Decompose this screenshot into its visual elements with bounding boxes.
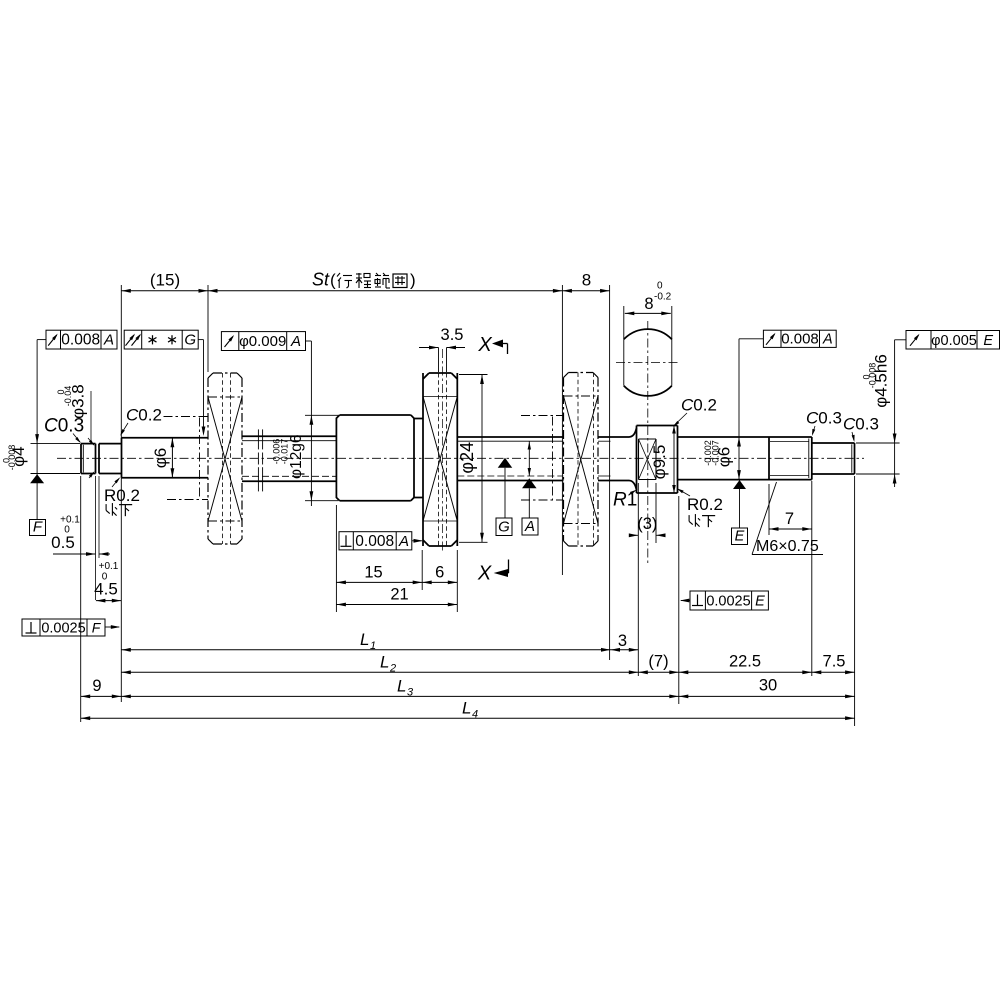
svg-text:0: 0 — [102, 572, 108, 583]
svg-text:φ24: φ24 — [457, 442, 477, 474]
svg-text:R0.2: R0.2 — [687, 495, 723, 514]
thread break marks — [257, 429, 259, 449]
dim (15) — [121, 290, 208, 292]
leader down to phi12g6 dim line — [306, 340, 312, 342]
svg-text:A: A — [103, 332, 114, 349]
svg-text:3: 3 — [407, 687, 414, 699]
svg-text:21: 21 — [390, 586, 408, 604]
circle flats + extension lines — [623, 306, 625, 386]
svg-text:A: A — [822, 331, 833, 347]
svg-text:M6×0.75: M6×0.75 — [756, 538, 819, 555]
dim 0.5 groove width — [95, 476, 97, 600]
svg-text:1: 1 — [370, 640, 376, 652]
svg-text:0.008: 0.008 — [355, 533, 394, 550]
dim L1 and 3 — [121, 649, 610, 651]
phantom flange box3 at right stroke end — [569, 372, 594, 374]
phantom flange box1 at left stroke end — [213, 372, 237, 374]
svg-text:R0.2: R0.2 — [104, 486, 140, 505]
phi6 right dimension — [738, 339, 740, 480]
wrench flats square with X — [638, 439, 640, 480]
datum E target and box — [733, 480, 746, 489]
phi6 left journal — [122, 437, 209, 439]
svg-text:F: F — [33, 519, 43, 536]
dim 3.5 flange hole — [438, 348, 440, 373]
dim 8 0/-0.2 across flats (section view) — [625, 312, 671, 314]
shaft centerline — [57, 457, 864, 459]
svg-text:R1: R1 — [613, 490, 637, 511]
dim (3) wrench flats length — [637, 483, 639, 676]
shoulder at x121 — [121, 438, 123, 478]
dim 15 and 6 nut body/flange — [335, 505, 337, 612]
svg-text:φ0.005: φ0.005 — [931, 333, 977, 349]
datum A target and box — [528, 442, 530, 477]
dim 4.5 — [96, 600, 121, 602]
phi4.5h6 dimension — [894, 340, 896, 487]
svg-text:φ0.009: φ0.009 — [239, 333, 286, 350]
section X-X view circle with flats — [624, 329, 672, 339]
circlip groove phi3.8 — [95, 444, 97, 474]
dim 8 (top, overtravel) — [562, 290, 609, 292]
bottom dim extension lines — [80, 476, 82, 722]
svg-text:0.0025: 0.0025 — [41, 621, 85, 637]
svg-text:+0.1: +0.1 — [60, 515, 80, 526]
datum G target and box — [498, 458, 513, 468]
svg-text:-0.008: -0.008 — [7, 445, 17, 471]
svg-text:2: 2 — [389, 663, 396, 675]
flange X marks — [423, 397, 457, 522]
svg-text:(15): (15) — [150, 271, 180, 290]
svg-text:6: 6 — [435, 563, 444, 581]
phi4.5 tip — [812, 442, 855, 444]
svg-text:0.008: 0.008 — [61, 332, 100, 349]
svg-text:7.5: 7.5 — [823, 653, 846, 671]
svg-text:G: G — [498, 519, 510, 536]
svg-text:8: 8 — [582, 271, 591, 290]
svg-text:30: 30 — [759, 677, 777, 695]
svg-text:C0.3: C0.3 — [806, 409, 842, 428]
svg-text:15: 15 — [364, 563, 382, 581]
dim 9 L3 30 — [81, 695, 122, 697]
svg-text:φ9.5: φ9.5 — [650, 445, 669, 480]
svg-text:C0.3: C0.3 — [44, 416, 84, 437]
svg-text:-0.008: -0.008 — [868, 363, 878, 389]
svg-text:L: L — [397, 677, 406, 696]
phi12g6 dimension — [310, 341, 312, 506]
screw thread section right — [457, 436, 563, 438]
FCF total runout * * G — [124, 330, 198, 349]
svg-text:φ6: φ6 — [151, 448, 170, 468]
svg-text:E: E — [983, 333, 993, 349]
svg-text:φ12g6: φ12g6 — [288, 434, 305, 479]
phi24 dimension — [481, 375, 483, 543]
svg-text:3: 3 — [618, 632, 627, 650]
datum box F — [30, 520, 46, 536]
top dim extension lines — [120, 285, 122, 438]
svg-text:0.0025: 0.0025 — [706, 594, 750, 610]
nut neck — [414, 418, 423, 420]
svg-text:L: L — [462, 699, 471, 718]
phi6 right journal — [678, 436, 770, 438]
svg-text:-0.007: -0.007 — [711, 440, 721, 466]
svg-text:A: A — [290, 333, 301, 350]
FCF perp 0.0025 F — [22, 619, 105, 636]
screw thread section left (OD and root lines) — [242, 435, 336, 437]
svg-text:C0.3: C0.3 — [843, 415, 879, 434]
leader to thread surface — [198, 339, 203, 341]
phi4 dimension with datum F — [36, 340, 38, 520]
svg-text:X: X — [477, 563, 492, 585]
svg-text:9: 9 — [92, 677, 101, 695]
dim 7 thread length — [768, 484, 770, 535]
svg-text:+0.1: +0.1 — [99, 561, 119, 572]
dim L4 — [81, 717, 855, 719]
svg-text:): ) — [410, 271, 416, 290]
FCF perp 0.0025 E — [690, 591, 768, 610]
svg-text:0: 0 — [657, 281, 663, 292]
dim St stroke range — [208, 290, 562, 292]
svg-text:C0.2: C0.2 — [681, 396, 717, 415]
FCF runout phi0.005 E — [906, 331, 1000, 350]
svg-text:22.5: 22.5 — [729, 653, 761, 671]
leader from FCF to phi4 dim line — [37, 339, 46, 341]
svg-text:0.5: 0.5 — [51, 533, 75, 552]
circle centerlines — [616, 362, 680, 364]
thread runout into collar — [629, 428, 637, 437]
svg-text:(: ( — [330, 271, 336, 290]
svg-text:F: F — [92, 620, 102, 636]
FCF perp 0.008 A (flange face) — [339, 532, 412, 550]
flange chamfer lines — [423, 396, 457, 398]
svg-text:7: 7 — [785, 510, 794, 528]
svg-text:X: X — [477, 334, 492, 356]
phantom nut stub at left stroke end — [164, 416, 209, 418]
svg-text:0: 0 — [64, 525, 70, 536]
svg-text:-0.04: -0.04 — [63, 386, 73, 407]
svg-text:E: E — [755, 594, 765, 610]
dim 21 — [336, 604, 457, 606]
svg-text:(3): (3) — [637, 515, 657, 533]
svg-text:C0.2: C0.2 — [126, 406, 162, 425]
nut flange phi24 — [422, 373, 424, 546]
left journal phi4 outline — [80, 444, 82, 474]
svg-text:-0.2: -0.2 — [654, 292, 672, 303]
phi9.5 collar with wrench flats — [636, 426, 638, 494]
svg-text:A: A — [524, 518, 535, 535]
FCF runout 0.008 A right — [763, 330, 836, 347]
M6 thread section — [768, 437, 770, 480]
svg-text:8: 8 — [644, 295, 653, 313]
svg-text:E: E — [735, 529, 745, 545]
svg-text:L: L — [360, 630, 369, 649]
svg-text:-0.017: -0.017 — [280, 439, 290, 465]
svg-text:3.5: 3.5 — [441, 326, 464, 344]
FCF runout 0.008 A (left, phi4) — [46, 330, 117, 349]
svg-text:G: G — [184, 332, 196, 349]
nut body phi12g6 — [336, 415, 339, 501]
svg-text:0.008: 0.008 — [781, 330, 819, 347]
svg-text:A: A — [398, 533, 409, 550]
phantom nut stub at right stroke end — [521, 415, 564, 417]
svg-text:4: 4 — [472, 709, 478, 721]
dim L2 (7) 22.5 7.5 — [121, 671, 638, 673]
FCF runout phi0.009 A (nut body) — [221, 332, 305, 351]
svg-text:L: L — [380, 653, 389, 672]
kanji 行程範囲 hand drawn — [337, 273, 340, 277]
flange bolt hole hidden lines — [438, 373, 440, 546]
phi6 left dimension — [171, 438, 173, 478]
svg-text:(7): (7) — [648, 653, 668, 671]
svg-text:St: St — [312, 270, 330, 290]
